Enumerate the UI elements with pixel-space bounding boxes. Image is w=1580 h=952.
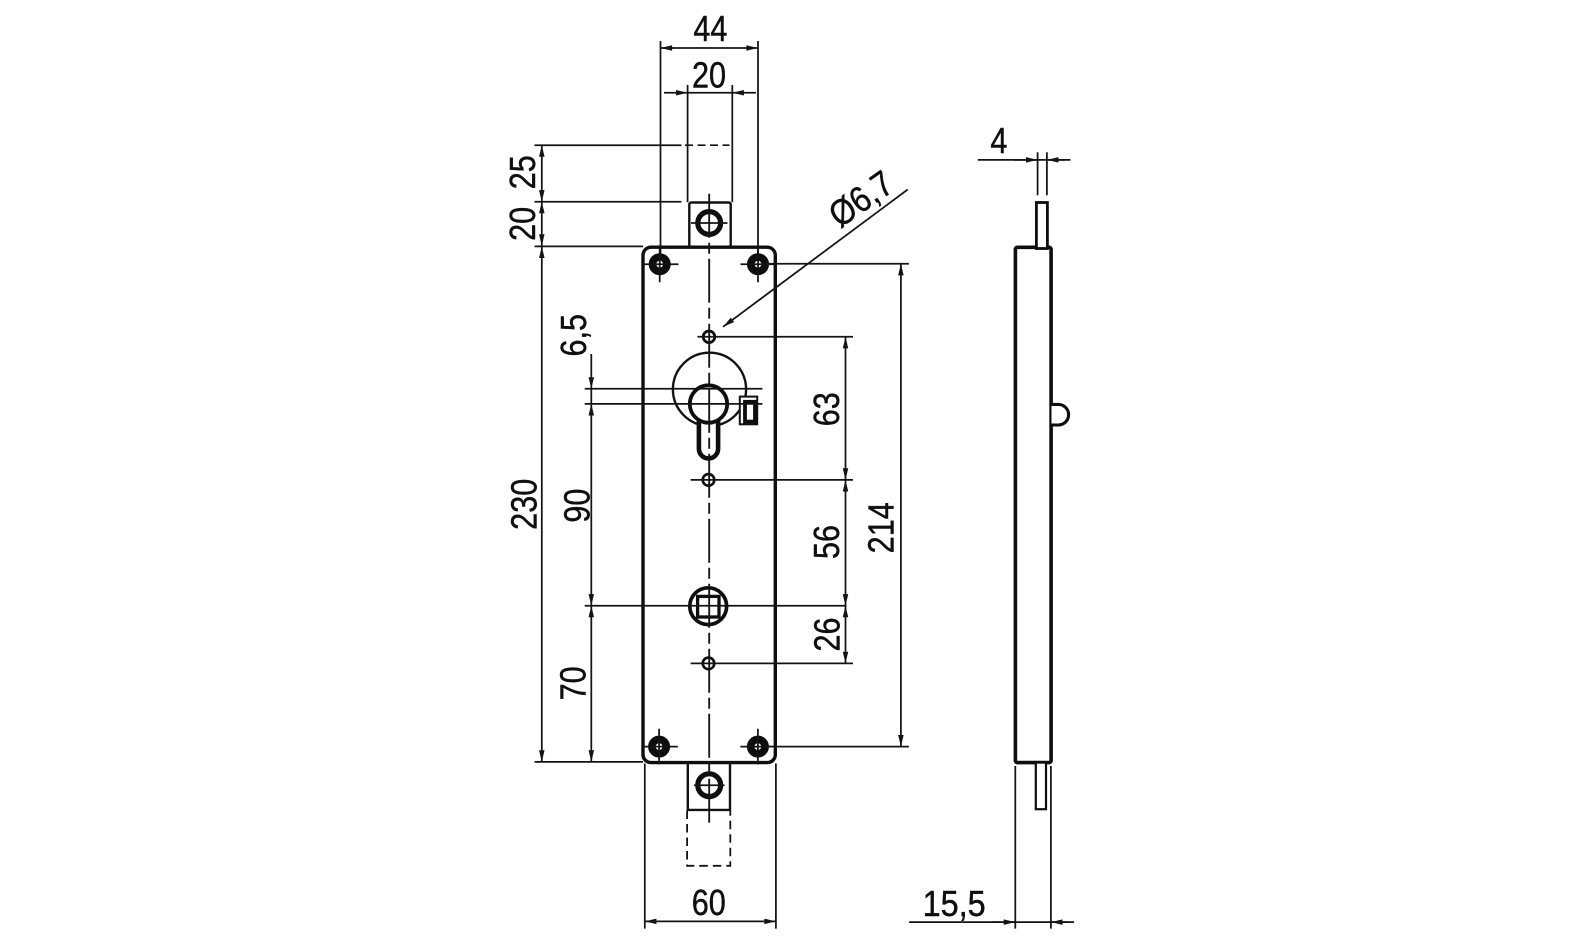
dimension 6.5 arrows <box>590 354 592 404</box>
euro cylinder center reference line <box>585 403 763 405</box>
dimension 90 text <box>558 489 598 523</box>
dashed extended bolt (bottom) <box>687 811 730 866</box>
svg-text:56: 56 <box>808 525 848 559</box>
extended bolt tip reference line <box>535 144 730 146</box>
dimension 90 line <box>590 404 592 606</box>
square spindle hole <box>698 596 719 617</box>
dimension 44 text <box>693 10 727 50</box>
dimension 25 text <box>504 155 544 189</box>
dimension 20 left line <box>541 202 543 246</box>
svg-text:4: 4 <box>990 122 1007 162</box>
hole diameter 6.7 <box>703 331 715 343</box>
svg-text:230: 230 <box>505 479 545 530</box>
upper small hole reference line <box>691 479 853 481</box>
top screw axis reference line <box>766 263 909 265</box>
dimension 214 line <box>900 264 902 747</box>
plate top reference line <box>535 245 644 247</box>
dimension 15.5 text <box>923 885 986 925</box>
square spindle hole circle <box>690 588 727 625</box>
side view bottom bolt rod <box>1036 763 1046 810</box>
svg-text:214: 214 <box>862 502 902 553</box>
dimension 26 line <box>845 606 847 664</box>
tab top reference line <box>535 201 682 203</box>
vertical center line front view <box>708 194 710 823</box>
dimension 15.5 extension lines <box>1015 766 1051 929</box>
screw hole top-right <box>741 247 777 283</box>
dimension 63 line <box>845 337 847 480</box>
screw hole bottom-left <box>642 729 678 765</box>
dimension 26 text <box>808 617 848 651</box>
dimension 20 left text <box>504 207 544 241</box>
bottom screw axis reference line <box>766 746 909 748</box>
dimension 70 text <box>554 666 594 700</box>
dimension 60 text <box>692 884 726 924</box>
svg-text:15,5: 15,5 <box>923 885 986 925</box>
screw hole top-left <box>643 247 679 283</box>
hole 6.7 reference line <box>698 336 854 338</box>
bottom bolt guide tab <box>688 763 730 810</box>
dimension 15.5 line with outside arrows <box>909 921 1074 923</box>
dimension 25 line <box>541 145 543 202</box>
dimension 214 text <box>862 502 902 553</box>
top tab hole <box>691 212 728 235</box>
svg-text:90: 90 <box>558 489 598 523</box>
dimension 56 text <box>808 525 848 559</box>
plate bottom reference line <box>535 761 644 763</box>
svg-text:70: 70 <box>554 666 594 700</box>
top bolt guide tab <box>689 203 730 249</box>
svg-text:26: 26 <box>808 617 848 651</box>
dimension 20 top extension lines <box>688 85 733 202</box>
svg-text:44: 44 <box>693 10 727 50</box>
side view cylinder bump <box>1052 404 1069 425</box>
dimension 60 line <box>645 920 776 922</box>
latch block right of cylinder <box>740 397 757 425</box>
euro profile cylinder circle <box>690 385 727 422</box>
bottom tab hole <box>694 774 725 797</box>
cylinder rose circle <box>673 353 746 426</box>
dimension 70 line <box>590 606 592 762</box>
dimension 60 extension lines <box>645 764 776 929</box>
dimension 6.5 text <box>555 314 595 357</box>
dimension 230 text <box>505 479 545 530</box>
small hole upper middle <box>703 474 715 486</box>
screw hole bottom-right <box>740 729 776 765</box>
svg-text:6,5: 6,5 <box>555 314 595 357</box>
leader line diameter 6.7 <box>723 190 908 327</box>
dimension 56 line <box>845 480 847 606</box>
dimension 230 line <box>541 246 543 762</box>
dimension 4 line with outside arrows <box>978 159 1071 161</box>
small hole lower middle <box>703 658 715 670</box>
spindle center reference line <box>585 605 847 607</box>
leader text diameter 6.7 <box>822 163 901 235</box>
svg-text:20: 20 <box>504 207 544 241</box>
side view top bolt rod <box>1036 203 1047 249</box>
dimension 4 text <box>990 122 1007 162</box>
dimension 63 text <box>808 392 848 426</box>
lower small hole reference line <box>691 662 853 664</box>
dimension 20 top line with outside arrows <box>664 92 756 94</box>
rose circle center reference line <box>585 388 763 390</box>
svg-text:63: 63 <box>808 392 848 426</box>
euro profile slot <box>699 398 718 458</box>
front view lock plate outline <box>643 247 775 762</box>
svg-text:25: 25 <box>504 155 544 189</box>
side view plate <box>1015 247 1051 762</box>
dimension 44 extension lines <box>661 41 759 254</box>
dimension 4 extension lines <box>1038 152 1047 195</box>
svg-text:20: 20 <box>692 56 726 96</box>
dimension 20 top text <box>692 56 726 96</box>
dimension 44 line <box>661 47 759 49</box>
svg-text:60: 60 <box>692 884 726 924</box>
